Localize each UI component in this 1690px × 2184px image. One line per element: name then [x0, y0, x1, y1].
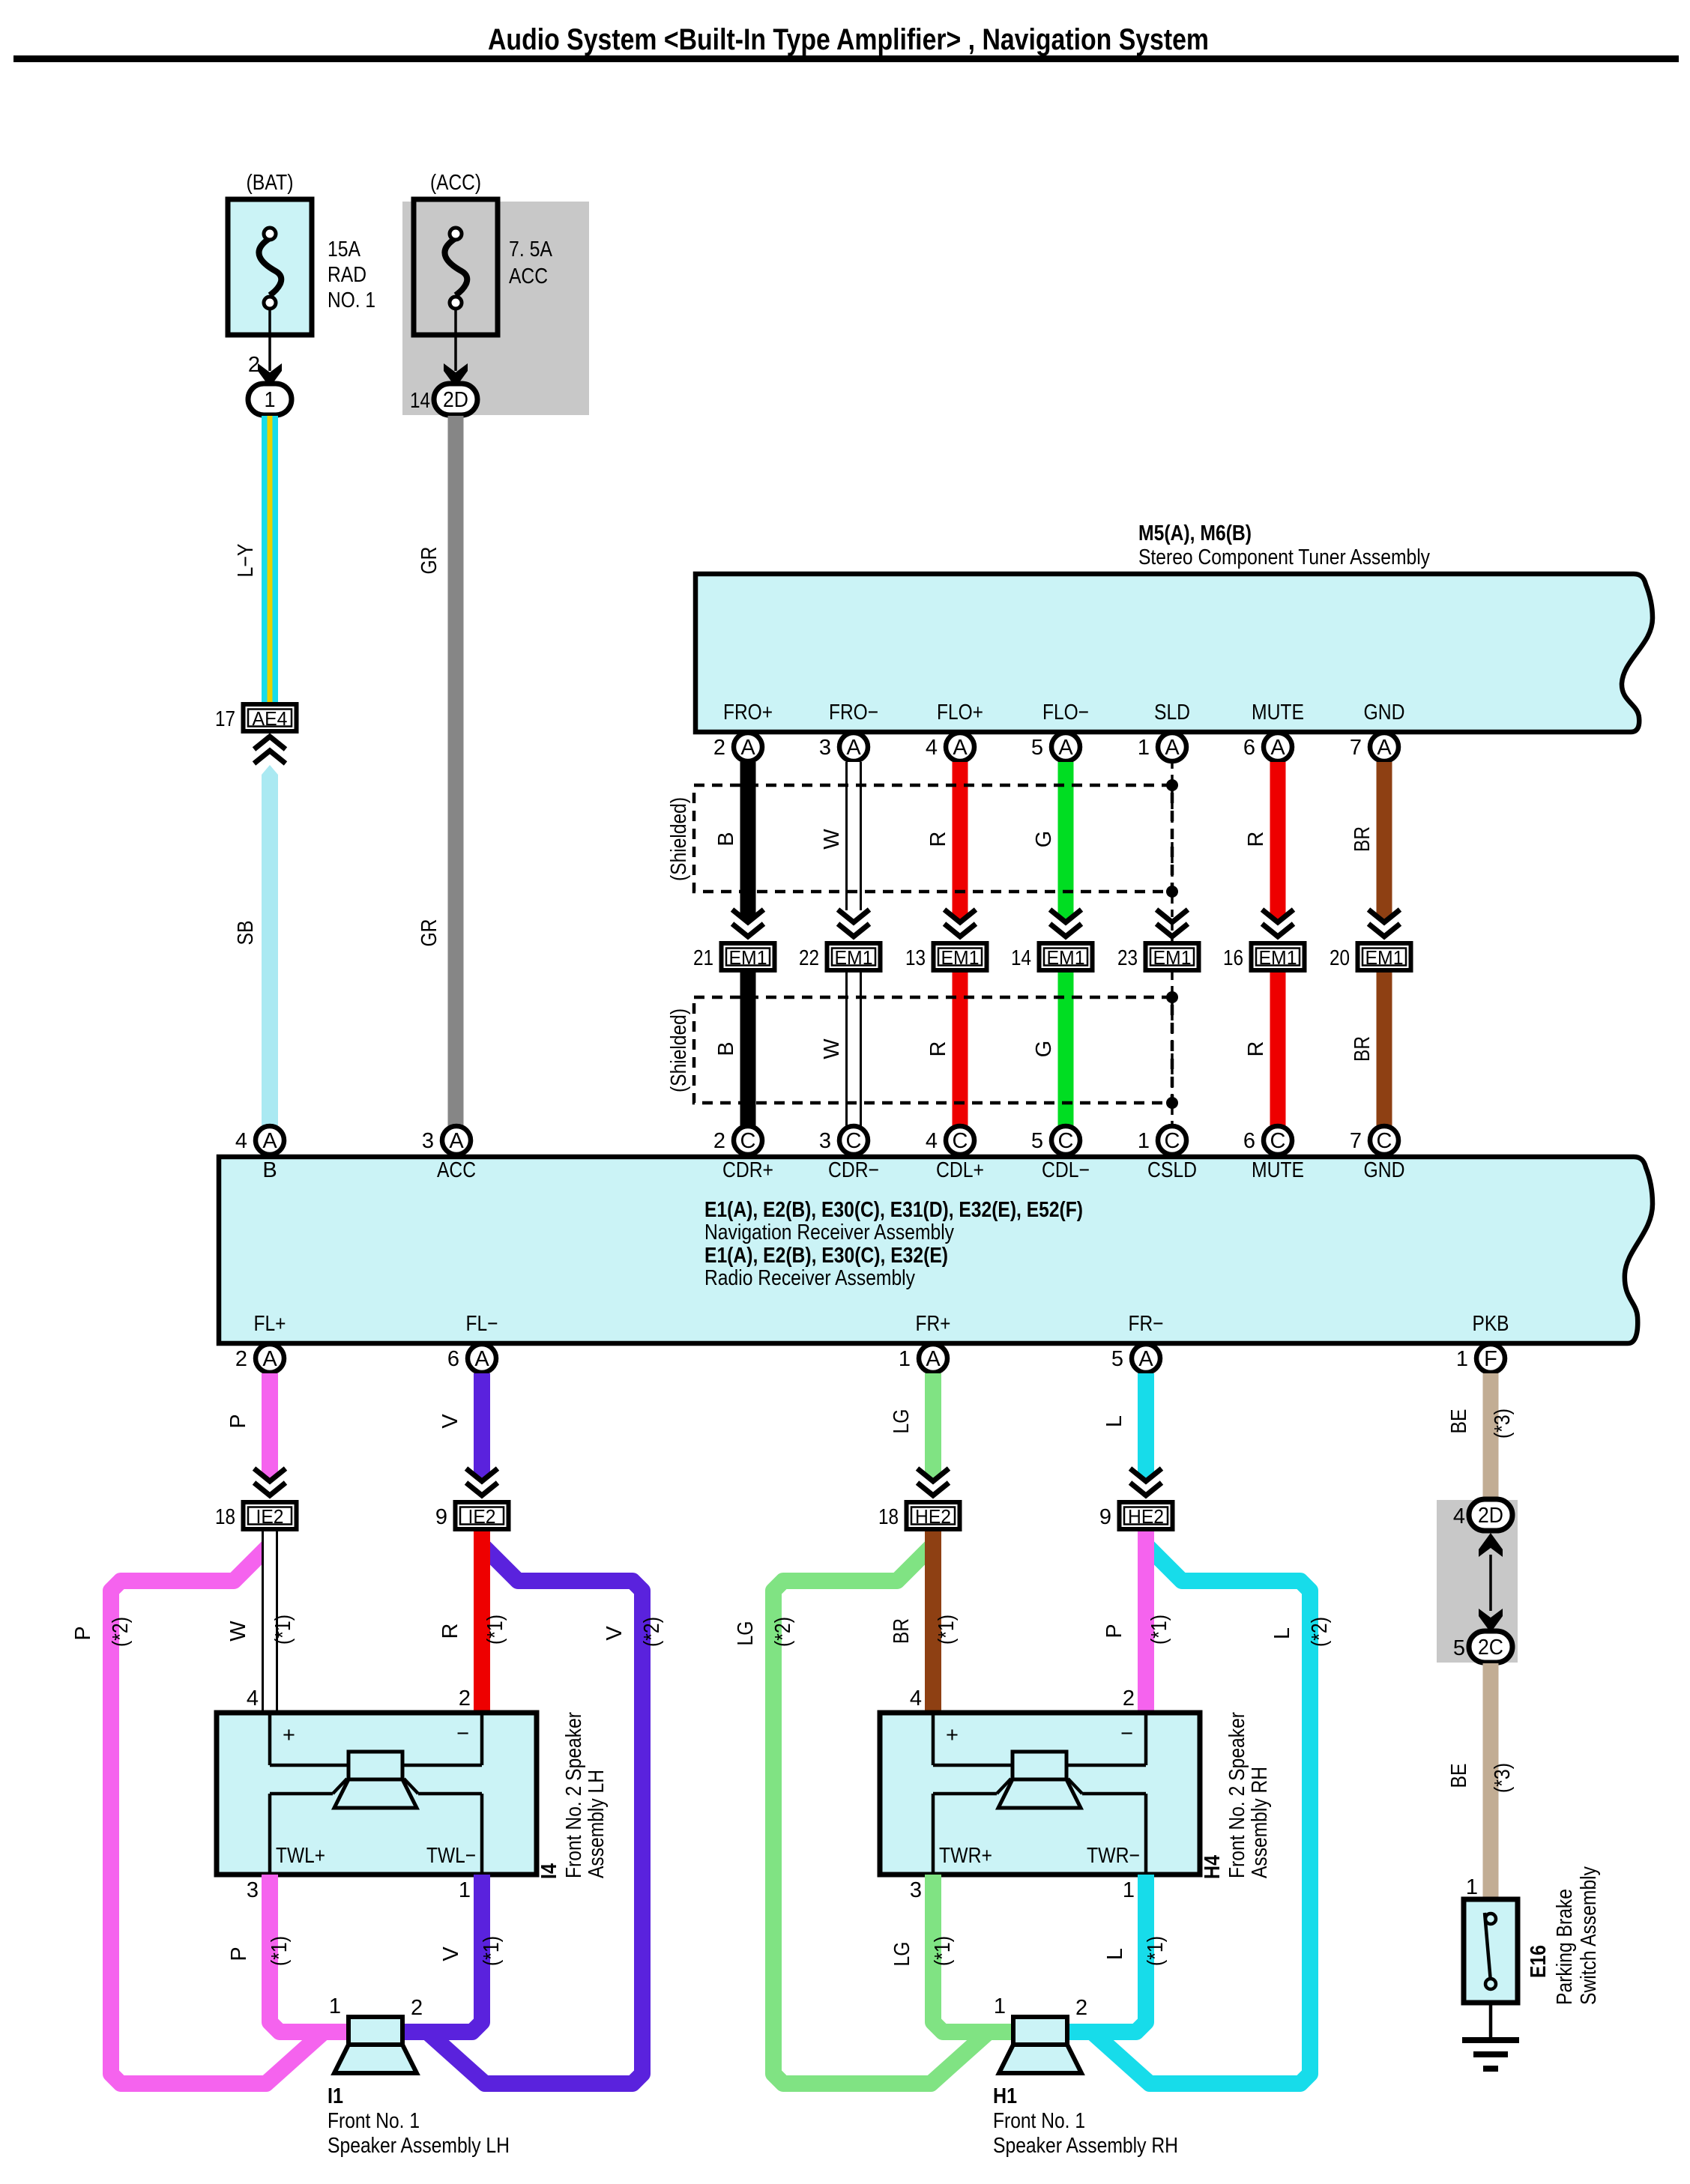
svg-text:EM1: EM1 — [941, 946, 980, 969]
svg-text:(*3): (*3) — [1491, 1409, 1515, 1439]
connector A pin 6 — [468, 1344, 496, 1373]
svg-text:3: 3 — [819, 1129, 831, 1153]
fuse box (ACC) — [414, 199, 498, 335]
svg-text:L−Y: L−Y — [234, 544, 258, 578]
svg-text:4: 4 — [235, 1129, 247, 1153]
wire fuse BAT to connector 1 — [268, 309, 271, 371]
svg-text:1: 1 — [1138, 1129, 1150, 1153]
svg-text:21: 21 — [693, 946, 713, 970]
svg-text:FLO−: FLO− — [1042, 701, 1089, 725]
svg-text:Parking Brake: Parking Brake — [1553, 1889, 1577, 2005]
svg-text:(*2): (*2) — [109, 1617, 133, 1647]
svg-text:FR−: FR− — [1129, 1312, 1164, 1336]
svg-text:BR: BR — [890, 1618, 914, 1644]
svg-text:EM1: EM1 — [835, 946, 873, 969]
svg-text:(*1): (*1) — [268, 1936, 292, 1966]
svg-text:I1: I1 — [328, 2084, 343, 2108]
svg-text:R: R — [1244, 1041, 1268, 1057]
svg-text:TWL−: TWL− — [426, 1844, 476, 1868]
svg-text:Speaker Assembly LH: Speaker Assembly LH — [328, 2134, 510, 2158]
shield junction dots — [1166, 779, 1178, 791]
svg-text:LG: LG — [890, 1409, 914, 1434]
svg-text:9: 9 — [435, 1505, 447, 1529]
svg-text:A: A — [926, 1347, 941, 1371]
svg-text:C: C — [1165, 1129, 1180, 1153]
front no.2 speaker assembly box H4 — [880, 1713, 1200, 1875]
svg-text:E1(A), E2(B), E30(C), E32(E): E1(A), E2(B), E30(C), E32(E) — [704, 1244, 948, 1268]
connector A pin 4 — [946, 733, 974, 761]
svg-text:3: 3 — [247, 1878, 259, 1902]
svg-text:V: V — [438, 1414, 462, 1429]
svg-text:GR: GR — [417, 547, 441, 575]
splice chevron 13 — [944, 910, 976, 922]
svg-text:Speaker Assembly RH: Speaker Assembly RH — [993, 2134, 1178, 2158]
wire V (*1) to front speaker — [398, 1875, 482, 2032]
parking brake switch assembly E16 — [1464, 1899, 1518, 2003]
svg-text:6: 6 — [447, 1347, 459, 1371]
svg-text:(BAT): (BAT) — [247, 171, 294, 195]
svg-text:2: 2 — [1075, 1996, 1087, 2020]
svg-text:FRO+: FRO+ — [723, 701, 773, 725]
svg-text:1: 1 — [899, 1347, 911, 1371]
svg-text:CDR−: CDR− — [828, 1158, 879, 1182]
svg-text:B: B — [262, 1158, 277, 1182]
svg-text:1: 1 — [329, 1994, 341, 2018]
svg-text:A: A — [1270, 736, 1285, 760]
svg-text:A: A — [740, 736, 755, 760]
svg-text:HE2: HE2 — [1128, 1505, 1164, 1528]
svg-text:5: 5 — [1111, 1347, 1123, 1371]
svg-text:3: 3 — [422, 1129, 434, 1153]
svg-text:2D: 2D — [443, 388, 468, 412]
svg-text:A: A — [262, 1347, 277, 1371]
svg-text:23: 23 — [1117, 946, 1138, 970]
svg-text:−: − — [1120, 1722, 1133, 1746]
svg-text:GR: GR — [417, 919, 441, 947]
svg-text:H4: H4 — [1201, 1855, 1225, 1879]
svg-text:R: R — [926, 832, 950, 847]
svg-text:3: 3 — [819, 736, 831, 760]
svg-text:G: G — [1032, 1041, 1056, 1058]
svg-text:2D: 2D — [1478, 1504, 1503, 1528]
svg-text:22: 22 — [799, 946, 819, 970]
svg-text:3: 3 — [910, 1878, 922, 1902]
svg-text:W: W — [226, 1621, 250, 1642]
connector A pin 7 — [1370, 733, 1398, 761]
svg-text:EM1: EM1 — [1153, 946, 1192, 969]
wire BR to speaker — [925, 1531, 941, 1713]
connector C pin 1 — [1158, 1126, 1186, 1155]
wire R segment to pin 6C — [1270, 972, 1286, 1126]
svg-text:Audio System <Built-In Type Am: Audio System <Built-In Type Amplifier> ,… — [488, 23, 1209, 56]
svg-text:1: 1 — [1138, 736, 1150, 760]
svg-text:BE: BE — [1447, 1764, 1471, 1788]
svg-text:B: B — [714, 1041, 738, 1056]
svg-text:A: A — [1377, 736, 1392, 760]
stereo component tuner assembly box — [695, 574, 1653, 732]
svg-text:BR: BR — [1351, 1036, 1374, 1062]
svg-text:13: 13 — [905, 946, 926, 970]
svg-text:R: R — [1244, 832, 1268, 847]
svg-text:2: 2 — [235, 1347, 247, 1371]
svg-text:EM1: EM1 — [1047, 946, 1085, 969]
svg-text:FLO+: FLO+ — [937, 701, 983, 725]
svg-text:18: 18 — [215, 1505, 235, 1529]
connector C pin 7 — [1370, 1126, 1398, 1155]
svg-text:B: B — [714, 832, 738, 846]
connector EM1 pin 20 — [1358, 943, 1411, 970]
svg-text:2: 2 — [713, 1129, 725, 1153]
svg-text:RAD: RAD — [328, 263, 366, 287]
splice chevron 16 — [1262, 910, 1294, 922]
wire #5a22dd outer run — [398, 1536, 642, 2084]
fuse box (BAT) — [228, 199, 312, 335]
svg-text:A: A — [1058, 736, 1073, 760]
svg-text:FL−: FL− — [466, 1312, 498, 1336]
svg-text:E16: E16 — [1527, 1945, 1551, 1978]
svg-text:7: 7 — [1350, 736, 1362, 760]
connector IE2 pin 9 — [456, 1502, 509, 1529]
svg-text:4: 4 — [926, 1129, 938, 1153]
svg-text:H1: H1 — [993, 2084, 1017, 2108]
connector C pin 3 — [839, 1126, 868, 1155]
svg-text:1: 1 — [1456, 1347, 1468, 1371]
svg-text:1: 1 — [1123, 1878, 1135, 1902]
svg-text:C: C — [846, 1129, 862, 1153]
svg-text:SB: SB — [234, 921, 258, 946]
wire #17dcea outer run — [1063, 1536, 1310, 2084]
front no.1 speaker assembly LH (I1) — [348, 2017, 402, 2045]
svg-text:EM1: EM1 — [1365, 946, 1404, 969]
svg-text:I4: I4 — [537, 1863, 561, 1879]
svg-text:ACC: ACC — [509, 264, 548, 288]
svg-text:Front No. 2 Speaker: Front No. 2 Speaker — [562, 1712, 586, 1878]
connector EM1 pin 16 — [1252, 943, 1305, 970]
connector 2C pin 5 — [1469, 1631, 1512, 1663]
svg-text:Assembly RH: Assembly RH — [1248, 1767, 1272, 1878]
wire GR from connector 2D to pin 3A — [448, 416, 464, 1126]
svg-text:17: 17 — [215, 707, 235, 731]
svg-text:CDL−: CDL− — [1042, 1158, 1090, 1182]
svg-text:4: 4 — [247, 1687, 259, 1710]
tweeter symbol — [1013, 1752, 1066, 1779]
svg-text:4: 4 — [1453, 1504, 1465, 1528]
shielded group box 1 — [694, 785, 1172, 892]
wire SB from AE4 to pin 4A — [262, 765, 278, 1126]
svg-text:20: 20 — [1330, 946, 1350, 970]
connector A pin 5 — [1051, 733, 1080, 761]
svg-text:Assembly LH: Assembly LH — [585, 1770, 609, 1878]
connector C pin 6 — [1264, 1126, 1292, 1155]
connector C pin 4 — [946, 1126, 974, 1155]
connector HE2 pin 9 — [1120, 1502, 1173, 1529]
gray panel PKB junction — [1437, 1500, 1518, 1663]
svg-text:1: 1 — [994, 1994, 1006, 2018]
svg-text:NO. 1: NO. 1 — [328, 288, 375, 312]
svg-text:MUTE: MUTE — [1252, 701, 1304, 725]
wire P (*1) to front speaker — [270, 1875, 353, 2032]
wire W segment to pin 3C — [845, 972, 862, 1126]
svg-text:(*1): (*1) — [1147, 1615, 1171, 1645]
svg-text:R: R — [926, 1041, 950, 1057]
wire W to speaker — [262, 1531, 278, 1713]
svg-text:IE2: IE2 — [468, 1505, 496, 1528]
splice chevron 21 — [732, 910, 764, 922]
connector A pin 3 (ACC) — [442, 1126, 471, 1155]
svg-text:P: P — [71, 1626, 95, 1640]
wire LG (*1) to front speaker — [933, 1875, 1018, 2032]
connector A pin 2 — [734, 733, 762, 761]
svg-text:C: C — [953, 1129, 968, 1153]
splice chevron — [254, 1468, 286, 1481]
svg-text:4: 4 — [910, 1687, 922, 1710]
svg-text:TWR+: TWR+ — [939, 1844, 992, 1868]
svg-text:GND: GND — [1364, 701, 1405, 725]
splice chevron — [1130, 1468, 1162, 1481]
svg-text:15A: 15A — [328, 238, 361, 261]
wire P to speaker — [1138, 1531, 1154, 1713]
svg-text:C: C — [1270, 1129, 1286, 1153]
connector AE4 pin 17 — [244, 704, 297, 731]
front no.1 speaker assembly RH (H1) — [1013, 2017, 1067, 2045]
svg-text:(*1): (*1) — [1144, 1936, 1168, 1966]
svg-text:5: 5 — [1031, 736, 1043, 760]
svg-text:L: L — [1103, 1948, 1127, 1960]
gray panel behind ACC fuse — [402, 202, 589, 415]
fuse element symbol — [259, 238, 281, 295]
svg-text:(*1): (*1) — [931, 1936, 955, 1966]
svg-text:FR+: FR+ — [916, 1312, 951, 1336]
connector EM1 pin 21 — [722, 943, 775, 970]
connector IE2 pin 18 — [244, 1502, 297, 1529]
svg-text:1: 1 — [1466, 1875, 1478, 1899]
svg-text:A: A — [1138, 1347, 1153, 1371]
svg-text:V: V — [603, 1626, 627, 1641]
svg-text:6: 6 — [1243, 736, 1255, 760]
ground — [1489, 2003, 1493, 2039]
wire R to speaker — [474, 1531, 490, 1713]
wire B segment to pin 2C — [740, 972, 756, 1126]
svg-text:A: A — [474, 1347, 489, 1371]
svg-text:2C: 2C — [1478, 1636, 1503, 1660]
svg-text:Radio Receiver Assembly: Radio Receiver Assembly — [704, 1266, 915, 1290]
svg-text:Navigation Receiver Assembly: Navigation Receiver Assembly — [704, 1220, 954, 1244]
wire BE to parking brake switch — [1483, 1663, 1499, 1899]
wire V from nav — [474, 1373, 490, 1473]
svg-text:BR: BR — [1351, 826, 1374, 852]
junction arrows — [1489, 1555, 1492, 1611]
svg-text:2: 2 — [411, 1996, 423, 2020]
svg-text:4: 4 — [926, 736, 938, 760]
svg-text:C: C — [1058, 1129, 1074, 1153]
connector HE2 pin 18 — [907, 1502, 960, 1529]
fuse element symbol — [444, 238, 467, 295]
connector A pin 2 — [256, 1344, 284, 1373]
svg-text:EM1: EM1 — [729, 946, 767, 969]
svg-text:P: P — [227, 1946, 251, 1961]
connector EM1 pin 22 — [827, 943, 881, 970]
svg-text:E1(A), E2(B), E30(C), E31(D),: E1(A), E2(B), E30(C), E31(D), E32(E), E5… — [704, 1198, 1083, 1222]
svg-text:A: A — [846, 736, 861, 760]
svg-text:−: − — [456, 1722, 469, 1746]
svg-text:EM1: EM1 — [1259, 946, 1297, 969]
svg-text:5: 5 — [1031, 1129, 1043, 1153]
svg-text:GND: GND — [1364, 1158, 1405, 1182]
connector F pin 1 — [1476, 1344, 1505, 1373]
svg-text:PKB: PKB — [1473, 1312, 1509, 1336]
svg-text:LG: LG — [890, 1942, 914, 1967]
wire B segment from pin 2A — [740, 762, 756, 914]
svg-text:(*2): (*2) — [640, 1617, 664, 1647]
svg-text:IE2: IE2 — [256, 1505, 284, 1528]
svg-text:18: 18 — [878, 1505, 899, 1529]
connector EM1 pin 23 — [1146, 943, 1199, 970]
svg-text:FRO−: FRO− — [829, 701, 878, 725]
svg-text:A: A — [262, 1129, 277, 1153]
connector EM1 pin 13 — [934, 943, 987, 970]
svg-text:A: A — [1165, 736, 1180, 760]
wire #f563ee outer run — [111, 1536, 353, 2084]
svg-text:V: V — [439, 1946, 463, 1961]
wire G segment from pin 5A — [1058, 762, 1074, 914]
svg-text:7: 7 — [1350, 1129, 1362, 1153]
svg-text:P: P — [226, 1414, 250, 1428]
svg-text:(*2): (*2) — [1308, 1617, 1332, 1647]
wire W segment from pin 3A — [845, 762, 862, 910]
svg-text:14: 14 — [410, 389, 430, 413]
wire L from nav — [1138, 1373, 1154, 1473]
svg-text:1: 1 — [265, 388, 276, 412]
svg-text:+: + — [283, 1723, 295, 1747]
svg-text:14: 14 — [1011, 946, 1031, 970]
connector A pin 1 — [1158, 733, 1186, 761]
splice chevron — [917, 1468, 949, 1481]
svg-text:C: C — [1377, 1129, 1392, 1153]
svg-text:HE2: HE2 — [915, 1505, 951, 1528]
svg-text:(*3): (*3) — [1491, 1763, 1515, 1793]
svg-text:+: + — [946, 1723, 959, 1747]
svg-text:L: L — [1270, 1627, 1294, 1639]
wire R segment to pin 4C — [953, 972, 968, 1126]
svg-text:FL+: FL+ — [254, 1312, 286, 1336]
svg-text:(*1): (*1) — [271, 1615, 295, 1645]
connector A pin 4 (B) — [256, 1126, 284, 1155]
svg-text:6: 6 — [1243, 1129, 1255, 1153]
connector EM1 pin 14 — [1039, 943, 1093, 970]
svg-text:(*1): (*1) — [480, 1936, 504, 1966]
connector C pin 2 — [734, 1126, 762, 1155]
wire BE from nav PKB — [1483, 1373, 1499, 1499]
svg-text:P: P — [1102, 1624, 1126, 1638]
splice chevron 20 — [1368, 910, 1400, 922]
svg-text:16: 16 — [1223, 946, 1243, 970]
svg-text:2: 2 — [459, 1687, 471, 1710]
svg-text:Stereo Component Tuner Assembl: Stereo Component Tuner Assembly — [1138, 545, 1430, 569]
svg-text:AE4: AE4 — [253, 707, 288, 730]
splice chevron 14 — [1050, 910, 1081, 922]
svg-text:CDL+: CDL+ — [936, 1158, 984, 1182]
wire L-Y from connector 1 to AE4 — [262, 416, 278, 704]
shielded group box 2 — [694, 997, 1172, 1103]
wire G segment to pin 5C — [1058, 972, 1074, 1126]
navigation receiver assembly box — [219, 1157, 1653, 1343]
svg-text:(Shielded): (Shielded) — [667, 797, 691, 881]
svg-text:W: W — [820, 829, 844, 850]
svg-text:CSLD: CSLD — [1147, 1158, 1197, 1182]
svg-text:SLD: SLD — [1154, 701, 1190, 725]
svg-text:2: 2 — [713, 736, 725, 760]
svg-text:F: F — [1484, 1347, 1497, 1371]
svg-text:2: 2 — [1123, 1687, 1135, 1710]
wire LG from nav — [925, 1373, 941, 1473]
svg-text:R: R — [438, 1624, 462, 1639]
title rule — [13, 55, 1679, 62]
wire SLD segment from pin 1A — [1171, 761, 1174, 941]
connector A pin 3 — [839, 733, 868, 761]
splice chevron 22 — [838, 910, 869, 922]
svg-text:1: 1 — [459, 1878, 471, 1902]
splice chevron 23 — [1156, 910, 1188, 922]
svg-text:5: 5 — [1453, 1636, 1465, 1660]
svg-text:Front No. 1: Front No. 1 — [993, 2109, 1085, 2133]
wire L (*1) to front speaker — [1063, 1875, 1146, 2032]
svg-text:(*1): (*1) — [483, 1615, 507, 1645]
svg-text:W: W — [820, 1038, 844, 1059]
svg-text:A: A — [449, 1129, 464, 1153]
front no.2 speaker assembly box I4 — [217, 1713, 537, 1875]
svg-text:A: A — [953, 736, 968, 760]
svg-text:(*2): (*2) — [771, 1617, 795, 1647]
svg-text:G: G — [1032, 831, 1056, 848]
splice chevron — [466, 1468, 498, 1481]
connector A pin 6 — [1264, 733, 1292, 761]
wire R segment from pin 6A — [1270, 762, 1286, 914]
connector 2D pin 4 — [1469, 1499, 1512, 1531]
svg-text:(ACC): (ACC) — [430, 171, 481, 195]
svg-text:ACC: ACC — [437, 1158, 476, 1182]
connector C pin 5 — [1051, 1126, 1080, 1155]
connector 2D pin 14 — [434, 384, 477, 415]
wire #80e383 outer run — [773, 1536, 1018, 2084]
connector A pin 1 — [919, 1344, 947, 1373]
wire P from nav — [262, 1373, 278, 1473]
svg-text:(*1): (*1) — [935, 1615, 959, 1645]
wire SLD segment to pin 1C — [1171, 972, 1174, 1126]
svg-text:L: L — [1102, 1415, 1126, 1427]
svg-text:TWL+: TWL+ — [276, 1844, 325, 1868]
tweeter symbol — [348, 1752, 402, 1779]
svg-text:TWR−: TWR− — [1087, 1844, 1140, 1868]
wire fuse ACC to connector 2D — [454, 309, 457, 371]
svg-text:C: C — [740, 1129, 756, 1153]
svg-text:M5(A), M6(B): M5(A), M6(B) — [1138, 521, 1252, 545]
svg-text:Front No. 2 Speaker: Front No. 2 Speaker — [1225, 1712, 1249, 1878]
svg-text:9: 9 — [1099, 1505, 1111, 1529]
svg-text:Front No. 1: Front No. 1 — [328, 2109, 420, 2133]
svg-text:BE: BE — [1447, 1409, 1471, 1434]
wire R segment from pin 4A — [953, 762, 968, 914]
svg-text:(Shielded): (Shielded) — [667, 1008, 691, 1092]
svg-text:CDR+: CDR+ — [722, 1158, 773, 1182]
connector 1 — [248, 384, 292, 415]
wire BR segment from pin 7A — [1377, 762, 1392, 914]
svg-text:MUTE: MUTE — [1252, 1158, 1304, 1182]
svg-text:LG: LG — [734, 1621, 758, 1646]
wire BR segment to pin 7C — [1377, 972, 1392, 1126]
svg-text:Switch Assembly: Switch Assembly — [1577, 1866, 1601, 2005]
svg-text:7. 5A: 7. 5A — [509, 238, 553, 261]
connector A pin 5 — [1132, 1344, 1160, 1373]
